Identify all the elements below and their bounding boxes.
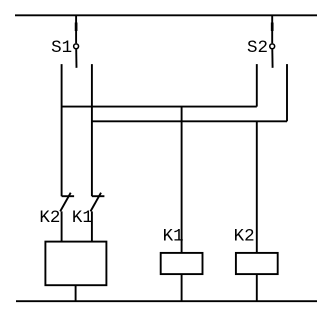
- wire contact K1 lower terminal to box: [91, 211, 93, 241]
- svg-text:S2: S2: [247, 38, 268, 58]
- wire node B drop to coil K2: [256, 121, 258, 253]
- switch S2 lever: [271, 50, 273, 68]
- svg-text:K2: K2: [39, 208, 60, 228]
- wire S1 left throw down to contact K2: [61, 64, 63, 196]
- wire coil K1 to bottom rail: [181, 274, 183, 301]
- wire node B horizontal (S1 right to S2 right): [92, 120, 287, 122]
- wire S2 left throw down to node A: [256, 64, 258, 107]
- svg-text:S1: S1: [51, 38, 72, 58]
- wire S2 common drop from rail: [271, 15, 273, 43]
- switch S2 pivot circle: [270, 44, 275, 49]
- contact K2 (NC break contact): [60, 193, 74, 212]
- wire top supply rail: [15, 14, 317, 16]
- wire node A horizontal (S1 left to S2 left): [62, 106, 257, 108]
- svg-text:K1: K1: [72, 208, 93, 228]
- svg-text:K2: K2: [234, 226, 255, 246]
- coil K2 rectangle: [236, 253, 278, 274]
- coil K1 rectangle: [161, 253, 203, 274]
- wire S1 common drop from rail: [75, 15, 77, 43]
- box load rectangle: [45, 242, 106, 286]
- svg-text:K1: K1: [163, 226, 184, 246]
- wire node A drop to coil K1: [181, 107, 183, 253]
- wire S1 right throw down to contact K1: [91, 64, 93, 196]
- wire S2 right throw down to node B: [286, 64, 288, 121]
- switch S1 lever: [75, 50, 77, 68]
- wire coil K2 to bottom rail: [256, 274, 258, 301]
- switch S1 pivot circle: [74, 44, 79, 49]
- contact K1 (NC break contact): [91, 193, 105, 212]
- wire box to bottom rail: [75, 285, 77, 301]
- wire bottom rail: [16, 300, 317, 302]
- wire contact K2 lower terminal to box: [61, 211, 63, 241]
